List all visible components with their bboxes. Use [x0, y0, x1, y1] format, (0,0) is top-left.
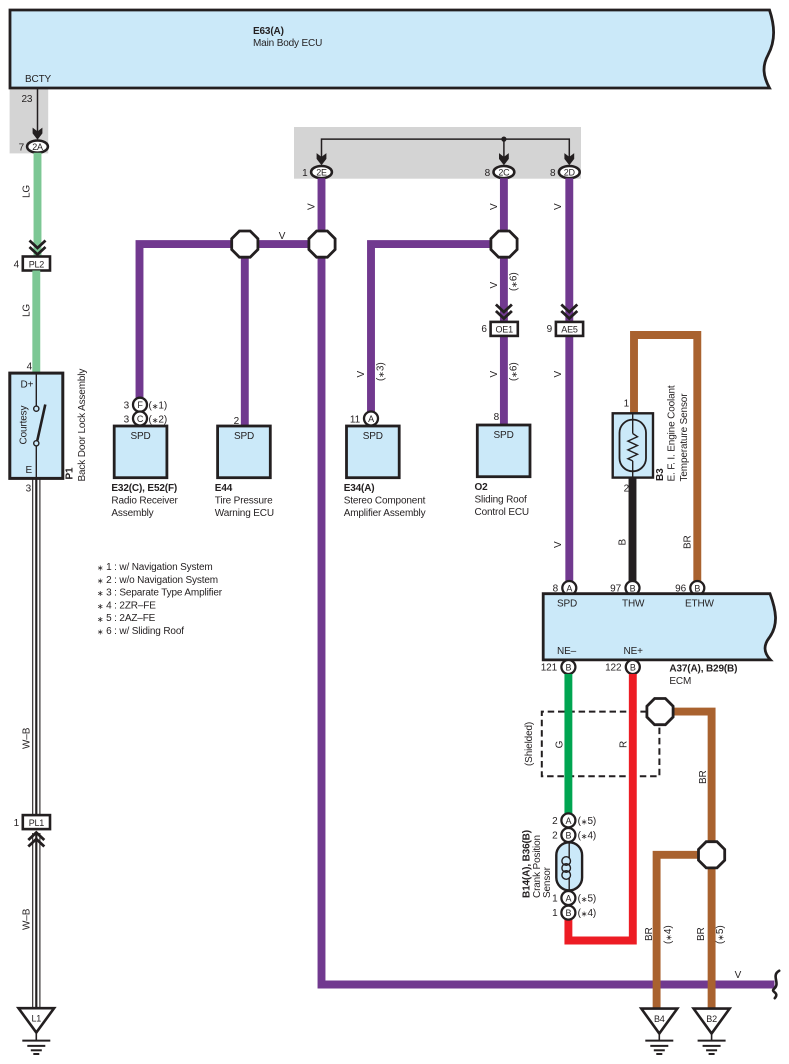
wire W-B from PL1 to ground L1	[33, 833, 40, 1008]
stereo pin A	[364, 412, 378, 426]
svg-text:B2: B2	[706, 1014, 717, 1024]
wire R red NE+ to crank sensor	[568, 674, 632, 941]
svg-text:A37(A), B29(B): A37(A), B29(B)	[669, 664, 737, 675]
svg-text:F: F	[137, 400, 143, 410]
svg-text:6: 6	[481, 324, 487, 335]
svg-text:OE1: OE1	[495, 325, 513, 335]
svg-text:(∗4): (∗4)	[663, 926, 674, 945]
svg-text:23: 23	[22, 94, 33, 105]
svg-text:Control ECU: Control ECU	[475, 507, 529, 518]
svg-text:Amplifier Assembly: Amplifier Assembly	[344, 508, 426, 519]
ECU E63(A) Main Body ECU box	[10, 10, 774, 88]
svg-text:NE–: NE–	[557, 646, 577, 657]
svg-text:(∗3): (∗3)	[376, 363, 387, 382]
svg-text:∗6 : w/ Sliding Roof: ∗6 : w/ Sliding Roof	[97, 626, 184, 637]
svg-text:Sliding Roof: Sliding Roof	[475, 495, 527, 506]
svg-text:(∗5): (∗5)	[715, 926, 726, 945]
connector AE5	[556, 322, 583, 336]
svg-text:E32(C), E52(F): E32(C), E52(F)	[111, 483, 177, 494]
svg-text:2E: 2E	[316, 168, 327, 178]
svg-text:B14(A), B36(B): B14(A), B36(B)	[522, 830, 533, 898]
svg-text:V: V	[279, 231, 286, 242]
svg-text:E: E	[26, 465, 33, 476]
svg-text:Stereo Component: Stereo Component	[344, 496, 426, 507]
connector OE1	[491, 322, 518, 336]
wire W-B from box to PL1	[33, 478, 40, 815]
svg-text:B: B	[565, 831, 571, 841]
svg-text:AE5: AE5	[561, 325, 578, 335]
svg-text:4: 4	[27, 362, 33, 373]
svg-text:SPD: SPD	[130, 431, 150, 442]
wire LG green from PL2 to Back Door Lock	[32, 271, 40, 375]
connector oval 2C	[494, 166, 515, 178]
svg-text:BR: BR	[683, 535, 694, 549]
arrow into 2C	[499, 153, 509, 165]
shield grey box left (connector 2A region)	[10, 87, 49, 153]
Back Door Lock Assembly box P1	[10, 373, 63, 478]
svg-text:G: G	[555, 740, 566, 748]
svg-text:(Shielded): (Shielded)	[524, 722, 535, 766]
double chevron up below PL1	[28, 833, 44, 847]
svg-text:11: 11	[350, 414, 361, 425]
node octagon A	[232, 231, 258, 257]
svg-text:B: B	[565, 663, 571, 673]
arrow into 2E	[317, 153, 327, 165]
svg-text:SPD: SPD	[363, 431, 383, 442]
svg-text:9: 9	[547, 324, 553, 335]
svg-text:2: 2	[624, 484, 630, 495]
double chevron into OE1	[496, 305, 512, 319]
svg-text:SPD: SPD	[234, 431, 254, 442]
node octagon B	[309, 231, 335, 257]
svg-text:∗3 : Separate Type Amplifier: ∗3 : Separate Type Amplifier	[97, 588, 223, 599]
svg-text:2C: 2C	[498, 168, 510, 178]
svg-text:2A: 2A	[32, 142, 43, 152]
brown wire ETHW to temp sensor	[634, 335, 697, 582]
svg-text:(∗6): (∗6)	[509, 363, 520, 382]
connector oval 2D	[559, 166, 580, 178]
ECM pin 122 B	[626, 660, 640, 674]
svg-text:LG: LG	[22, 304, 33, 317]
svg-text:1: 1	[552, 894, 558, 905]
svg-text:E. F. I. Engine Coolant: E. F. I. Engine Coolant	[667, 385, 678, 481]
svg-text:1: 1	[552, 908, 558, 919]
ECM pin 121 B	[561, 660, 575, 674]
svg-text:V: V	[553, 371, 564, 378]
svg-text:E44: E44	[215, 483, 233, 494]
svg-text:Radio Receiver: Radio Receiver	[111, 496, 178, 507]
black wire B temp sensor to THW	[629, 477, 637, 582]
svg-text:2: 2	[552, 831, 558, 842]
svg-text:(∗6): (∗6)	[509, 273, 520, 292]
svg-text:3: 3	[124, 414, 130, 425]
svg-text:SPD: SPD	[557, 599, 577, 610]
ECM box A37(A),B29(B)	[543, 594, 775, 660]
svg-text:E34(A): E34(A)	[344, 483, 375, 494]
arrow into 2D	[564, 153, 574, 165]
svg-text:BR: BR	[644, 927, 655, 941]
svg-text:121: 121	[541, 663, 558, 674]
svg-text:ECM: ECM	[669, 676, 691, 687]
svg-text:B3: B3	[655, 468, 666, 481]
wire G green NE- to crank sensor	[564, 674, 572, 814]
svg-text:(∗2): (∗2)	[149, 414, 168, 425]
svg-text:L1: L1	[31, 1014, 41, 1024]
brown wire from node D to node E to grounds	[673, 712, 712, 842]
svg-text:V: V	[489, 371, 500, 378]
svg-text:B: B	[630, 584, 636, 594]
svg-text:(∗5): (∗5)	[578, 816, 597, 827]
SPD box E44 Tire Pressure Warning ECU	[218, 426, 271, 478]
svg-text:V: V	[307, 203, 318, 210]
svg-text:W–B: W–B	[22, 908, 33, 930]
svg-text:V: V	[553, 203, 564, 210]
svg-text:B4: B4	[654, 1014, 665, 1024]
svg-text:2: 2	[552, 816, 558, 827]
connector oval 2A	[27, 141, 48, 153]
node octagon E	[699, 842, 725, 868]
double chevron into AE5	[561, 305, 577, 319]
svg-text:ETHW: ETHW	[685, 599, 715, 610]
svg-text:∗2 : w/o Navigation System: ∗2 : w/o Navigation System	[97, 575, 218, 586]
svg-text:Assembly: Assembly	[111, 508, 153, 519]
svg-text:W–B: W–B	[22, 727, 33, 749]
double chevron into PL2	[30, 241, 46, 255]
note list	[97, 562, 223, 637]
svg-text:A: A	[565, 816, 571, 826]
svg-text:A: A	[565, 894, 571, 904]
svg-text:D+: D+	[21, 380, 34, 391]
ECM pin 97 B	[626, 581, 640, 595]
svg-text:B: B	[618, 539, 629, 546]
svg-text:PL1: PL1	[29, 818, 45, 828]
crank sensor pins 2A 2B	[561, 813, 575, 827]
svg-text:O2: O2	[475, 482, 489, 493]
courtesy switch	[35, 375, 37, 407]
svg-text:∗1 : w/ Navigation System: ∗1 : w/ Navigation System	[97, 562, 213, 573]
svg-text:V: V	[489, 282, 500, 289]
wire LG green from 2A to PL2	[34, 153, 42, 257]
connector PL2	[23, 257, 50, 271]
svg-text:1: 1	[302, 168, 308, 179]
ground B2	[694, 1009, 730, 1054]
wavy break at purple wire end	[773, 971, 779, 998]
svg-text:122: 122	[605, 663, 622, 674]
svg-text:Main Body ECU: Main Body ECU	[253, 38, 322, 49]
svg-text:B: B	[630, 663, 636, 673]
brown wires from node E to grounds B4/B2 (over purple)	[657, 855, 699, 1008]
shielded dashed box	[542, 712, 660, 777]
temp sensor B3 box	[613, 413, 653, 477]
svg-text:B: B	[694, 584, 700, 594]
wire V from 2C down to node C and to OE1, O2	[500, 178, 508, 425]
svg-text:BR: BR	[698, 770, 709, 784]
svg-text:Warning ECU: Warning ECU	[215, 508, 274, 519]
svg-text:V: V	[356, 371, 367, 378]
crank sensor pins 1A 1B	[561, 891, 575, 905]
svg-text:7: 7	[19, 143, 25, 154]
svg-text:(∗4): (∗4)	[578, 908, 597, 919]
svg-text:C: C	[137, 414, 144, 424]
svg-text:8: 8	[485, 168, 491, 179]
svg-text:SPD: SPD	[494, 430, 514, 441]
connector oval 2E	[311, 166, 332, 178]
svg-text:R: R	[619, 741, 630, 748]
svg-text:∗5 : 2AZ–FE: ∗5 : 2AZ–FE	[97, 613, 156, 624]
svg-text:8: 8	[550, 168, 556, 179]
wire V from corner at stereo column to node C	[371, 244, 504, 411]
svg-text:Courtesy: Courtesy	[19, 406, 30, 445]
node octagon C	[491, 231, 517, 257]
svg-text:V: V	[735, 970, 742, 981]
svg-text:3: 3	[124, 401, 130, 412]
svg-text:B: B	[565, 908, 571, 918]
ECM pin 8 A	[562, 581, 576, 595]
svg-text:Back Door Lock Assembly: Back Door Lock Assembly	[77, 369, 88, 482]
svg-text:3: 3	[26, 484, 32, 495]
svg-text:V: V	[489, 203, 500, 210]
wire V from 2E down to node B, long run down and across bottom	[322, 178, 775, 984]
thin line net inside top-right grey box	[322, 139, 570, 160]
shield grey box top-right (2E/2C/2D region)	[294, 127, 581, 179]
wire V from 2D down to AE5 and ECM SPD	[565, 178, 573, 581]
wire V horizontal from corner at radio column through node A to node B	[140, 244, 323, 398]
ECM pin 96 B	[690, 581, 704, 595]
svg-text:P1: P1	[65, 467, 76, 480]
svg-text:LG: LG	[22, 185, 33, 198]
svg-text:E63(A): E63(A)	[253, 26, 284, 37]
svg-text:8: 8	[494, 412, 500, 423]
wire V from node A down to E44	[241, 244, 249, 426]
svg-text:THW: THW	[622, 599, 645, 610]
svg-text:NE+: NE+	[624, 646, 644, 657]
svg-text:∗4 : 2ZR–FE: ∗4 : 2ZR–FE	[97, 600, 156, 611]
radio receiver pins F/C	[133, 398, 147, 412]
svg-text:2D: 2D	[564, 168, 576, 178]
svg-text:A: A	[566, 584, 572, 594]
svg-text:(∗5): (∗5)	[578, 894, 597, 905]
svg-text:PL2: PL2	[29, 259, 45, 269]
SPD box O2 Sliding Roof Control ECU	[477, 425, 530, 477]
ground B4	[641, 1009, 677, 1054]
svg-text:V: V	[553, 541, 564, 548]
svg-text:BCTY: BCTY	[25, 74, 52, 85]
ground L1	[19, 1008, 55, 1054]
arrow into 2A	[33, 128, 43, 140]
svg-text:A: A	[368, 414, 374, 424]
SPD box E32(C),E52(F) Radio Receiver Assembly	[114, 426, 167, 478]
svg-text:1: 1	[14, 818, 20, 829]
svg-text:BR: BR	[696, 927, 707, 941]
svg-text:4: 4	[14, 260, 20, 271]
connector PL1	[23, 815, 50, 829]
svg-text:(∗1): (∗1)	[149, 401, 168, 412]
svg-text:1: 1	[624, 399, 630, 410]
svg-text:Temperature Sensor: Temperature Sensor	[679, 393, 690, 482]
svg-text:Tire Pressure: Tire Pressure	[215, 496, 273, 507]
svg-text:(∗4): (∗4)	[578, 831, 597, 842]
SPD box E34(A) Stereo Component Amplifier Assembly	[347, 426, 400, 478]
junction dot	[501, 137, 506, 142]
node octagon D	[647, 699, 673, 725]
crank position sensor body	[556, 842, 582, 890]
